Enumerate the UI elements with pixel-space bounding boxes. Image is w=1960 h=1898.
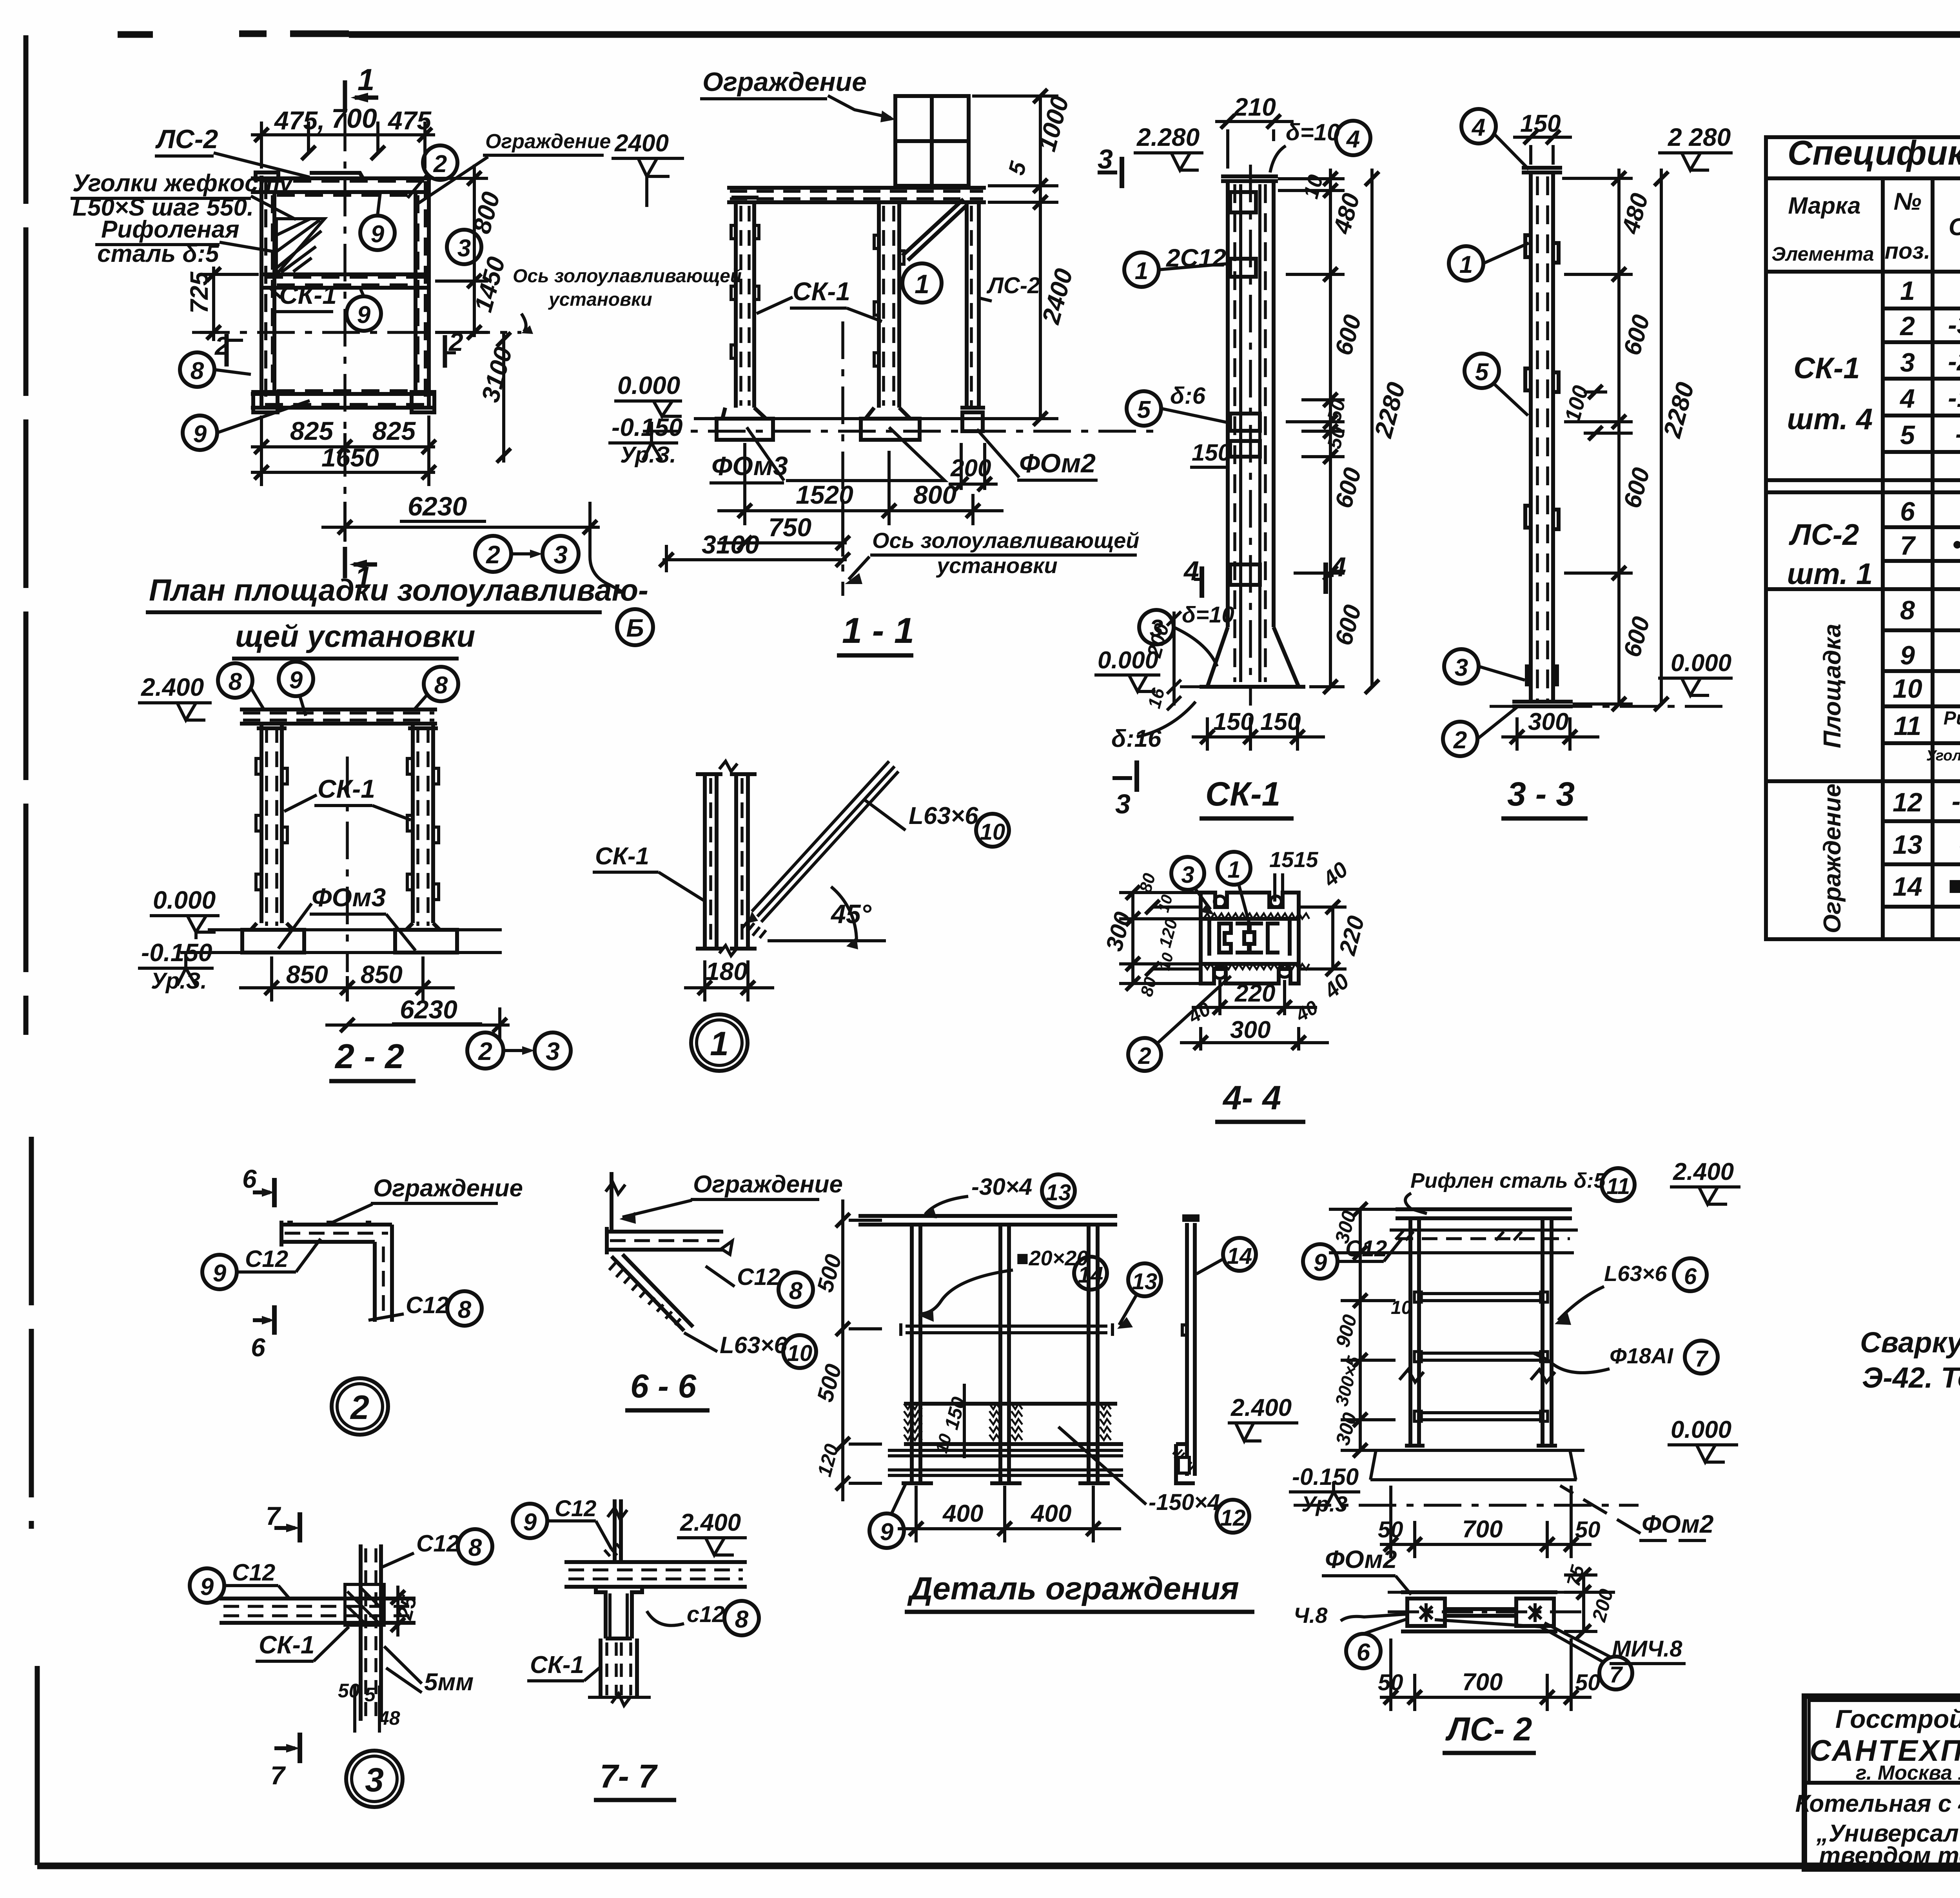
svg-text:475,: 475, <box>274 106 325 135</box>
svg-text:С12: С12 <box>232 1559 275 1586</box>
4-4 top plate with notches <box>1201 893 1299 919</box>
svg-text:13: 13 <box>1046 1180 1071 1205</box>
node 2 3-3 <box>1443 722 1477 756</box>
4-4 node 3 <box>1171 857 1204 890</box>
section 3 mark bottom <box>1134 760 1139 792</box>
svg-text:L63×6: L63×6 <box>720 1332 787 1358</box>
ground line <box>694 417 1035 420</box>
section 1 cut centerline <box>343 114 347 557</box>
svg-text:3: 3 <box>1181 862 1194 888</box>
detail3 horizontal beam <box>220 1599 416 1623</box>
svg-text:3 - 3: 3 - 3 <box>1507 775 1575 813</box>
fence mid rail <box>906 1326 1107 1333</box>
svg-text:3: 3 <box>554 541 568 569</box>
svg-text:шт. 1: шт. 1 <box>1787 557 1873 591</box>
svg-text:1: 1 <box>915 269 929 299</box>
svg-text:• Ф18АI: • Ф18АI <box>1952 530 1960 559</box>
ЛС-2 plan anchor symbols <box>1420 1606 1541 1619</box>
svg-text:3: 3 <box>457 235 471 262</box>
ЛС-2 stringers <box>1410 1218 1552 1446</box>
dim 725 left <box>200 267 259 341</box>
svg-text:13: 13 <box>1132 1269 1158 1294</box>
svg-text:поз.: поз. <box>1885 238 1931 264</box>
svg-text:6: 6 <box>251 1333 266 1362</box>
svg-text:825: 825 <box>290 416 334 445</box>
svg-text:-150×10: -150×10 <box>1948 383 1960 413</box>
svg-text:7- 7: 7- 7 <box>600 1758 658 1795</box>
2-2 center axis <box>346 757 349 972</box>
post side view body <box>1187 1223 1195 1476</box>
svg-text:1: 1 <box>1227 856 1240 883</box>
section marks 4-4 <box>1202 563 1326 598</box>
2-2 right column <box>395 724 457 953</box>
6-6 hatched angle below <box>612 1254 693 1331</box>
4-4 bolt holes <box>1214 966 1226 978</box>
svg-text:Э-42. Толщина сварных швов-: Э-42. Толщина сварных швов- 4мм. <box>1862 1361 1960 1394</box>
svg-text:2400: 2400 <box>614 130 669 157</box>
svg-text:1: 1 <box>1135 258 1148 285</box>
node 3 3-3 <box>1444 649 1479 684</box>
svg-text:Ф18АI: Ф18АI <box>1610 1343 1673 1368</box>
6-6 fence post top <box>610 1172 613 1231</box>
svg-text:Б: Б <box>626 614 644 642</box>
section 2 cut marks <box>227 334 456 368</box>
svg-text:4: 4 <box>1330 552 1346 582</box>
platform bottom beam <box>251 394 435 408</box>
svg-text:СК-1: СК-1 <box>279 280 337 309</box>
svg-text:5мм: 5мм <box>424 1669 474 1696</box>
detail1 45deg arc <box>768 939 886 942</box>
svg-text:7: 7 <box>266 1501 281 1530</box>
detail3 dim 25 <box>396 1586 399 1637</box>
svg-text:475: 475 <box>387 106 432 135</box>
svg-text:12: 12 <box>1893 788 1922 817</box>
4-4 dim left 300 <box>1119 885 1201 991</box>
svg-text:СК-1: СК-1 <box>318 774 375 803</box>
ЛС-2 foundation <box>1370 1450 1577 1480</box>
dim 3100 right lower <box>497 332 511 463</box>
СК-1 base dashdot ground <box>1180 685 1341 688</box>
svg-text:ЛС- 2: ЛС- 2 <box>1445 1711 1532 1747</box>
detail2 corner angle <box>281 1221 392 1322</box>
svg-text:1650: 1650 <box>321 443 379 472</box>
svg-text:2: 2 <box>448 327 463 356</box>
svg-text:9: 9 <box>213 1260 227 1287</box>
diagonal brace 1-1 <box>902 199 967 260</box>
svg-text:2 - 2: 2 - 2 <box>334 1037 404 1076</box>
svg-text:Ограждение: Ограждение <box>485 130 611 153</box>
fence plate end hatches <box>904 1404 1111 1440</box>
node 9 mid <box>347 296 381 331</box>
svg-text:700: 700 <box>331 103 377 134</box>
axis Б circle <box>617 609 653 645</box>
svg-text:9: 9 <box>289 667 303 694</box>
svg-text:2: 2 <box>433 151 447 178</box>
dims 50 50 small right <box>1301 393 1345 464</box>
platform middle beam <box>261 274 429 288</box>
svg-text:4: 4 <box>1346 126 1360 153</box>
svg-text:9: 9 <box>193 421 207 448</box>
node 5 δ=6 <box>1127 391 1161 426</box>
svg-text:ФОм2: ФОм2 <box>1019 448 1096 478</box>
3-3 flange tabs <box>1525 235 1559 684</box>
svg-text:1: 1 <box>358 62 374 97</box>
node 2 top right <box>423 145 457 180</box>
svg-text:850: 850 <box>361 960 403 989</box>
column СК-1 middle <box>861 202 920 440</box>
svg-text:5: 5 <box>1137 396 1151 423</box>
svg-text:2: 2 <box>1138 1043 1151 1069</box>
svg-text:-0.150: -0.150 <box>141 938 212 967</box>
svg-text:δ=10: δ=10 <box>1286 119 1340 145</box>
svg-text:L63×6: L63×6 <box>1604 1261 1667 1286</box>
detail3 node 9 С12 <box>190 1568 224 1603</box>
4-4 bottom dims 220 300 <box>1180 980 1329 1051</box>
svg-text:6230: 6230 <box>400 995 457 1024</box>
4-4 dim right 220 <box>1299 900 1347 976</box>
svg-text:8: 8 <box>458 1296 472 1323</box>
axis 2 to 3 bottom <box>475 536 511 572</box>
svg-text:СК-1: СК-1 <box>595 843 649 870</box>
detail2 section mark 6 top <box>272 1178 277 1207</box>
checkered steel hatch patch <box>276 219 325 274</box>
ЛС-2 node 9 С12 <box>1303 1244 1338 1279</box>
svg-text:Ось золоулавливающей: Ось золоулавливающей <box>872 528 1139 553</box>
svg-text:50: 50 <box>1378 1670 1403 1695</box>
svg-text:Рифоленая: Рифоленая <box>101 216 240 243</box>
svg-text:Ограждение: Ограждение <box>702 67 867 97</box>
2-2 axis 2 to 3 <box>467 1032 503 1069</box>
svg-text:7: 7 <box>1695 1346 1709 1372</box>
4-4 weld serrations <box>1203 913 1309 969</box>
svg-text:11: 11 <box>1606 1174 1630 1199</box>
svg-text:Госстрой СССР: Госстрой СССР <box>1835 1704 1960 1733</box>
fence panel on beam <box>895 96 969 186</box>
svg-text:400: 400 <box>942 1500 983 1527</box>
svg-text:6: 6 <box>1357 1639 1370 1666</box>
svg-text:150: 150 <box>1192 439 1231 466</box>
svg-text:5: 5 <box>1475 359 1489 386</box>
node 1 detail circle <box>902 263 942 303</box>
svg-text:11: 11 <box>1894 711 1922 741</box>
svg-text:ФОм3: ФОм3 <box>711 451 788 481</box>
svg-text:Элемента: Элемента <box>1771 243 1874 265</box>
dim 300 3-3 <box>1501 717 1599 751</box>
svg-text:150: 150 <box>1260 708 1301 735</box>
svg-text:-30×4: -30×4 <box>971 1174 1032 1200</box>
svg-text:Ограждение: Ограждение <box>1819 784 1846 933</box>
4-4 middle web channels <box>1201 919 1299 964</box>
svg-text:9: 9 <box>371 221 385 248</box>
svg-text:L63×6: L63×6 <box>909 802 978 829</box>
fence post feet <box>902 1481 1110 1485</box>
svg-text:δ:16: δ:16 <box>1111 725 1161 752</box>
svg-text:8: 8 <box>434 672 448 699</box>
ЛС-2 plan dim 75 200 <box>1564 1568 1615 1639</box>
dim chain right: 10 480 600 <box>1278 169 1345 694</box>
7-7 column below <box>596 1587 642 1639</box>
svg-text:Марка: Марка <box>1788 192 1860 219</box>
svg-text:1: 1 <box>1900 276 1915 306</box>
3-3 column body <box>1512 168 1573 706</box>
svg-text:300: 300 <box>1230 1016 1270 1043</box>
svg-text:СК-1: СК-1 <box>1205 775 1280 813</box>
svg-text:750: 750 <box>768 513 811 542</box>
dim 150 top 3-3 <box>1513 130 1572 165</box>
table header texts <box>1771 133 1960 265</box>
fence dim 150 10 inner <box>963 1384 966 1458</box>
platform right channel <box>416 178 429 408</box>
svg-text:3: 3 <box>1455 654 1468 681</box>
dim 210 top <box>1215 114 1294 169</box>
svg-text:■ 20×20: ■ 20×20 <box>1948 871 1960 900</box>
svg-text:Уголки жесткости: Уголки жесткости <box>1926 748 1960 764</box>
svg-text:14: 14 <box>1078 1262 1103 1288</box>
svg-text:725: 725 <box>185 271 213 314</box>
column lines <box>1881 178 1885 939</box>
svg-text:Деталь ограждения: Деталь ограждения <box>907 1571 1239 1606</box>
svg-text:0.000: 0.000 <box>617 371 680 399</box>
svg-text:9: 9 <box>200 1573 214 1600</box>
svg-text:2.400: 2.400 <box>141 673 204 701</box>
svg-text:δ:6: δ:6 <box>1170 383 1206 409</box>
svg-text:щей установки: щей установки <box>235 619 475 653</box>
svg-text:Сечение: Сечение <box>1949 214 1960 241</box>
svg-text:13: 13 <box>1893 830 1922 860</box>
СК-1 inner dashed chords <box>1235 184 1265 682</box>
svg-text:3100: 3100 <box>702 530 759 559</box>
svg-text:Уголки жефкосту: Уголки жефкосту <box>73 170 294 197</box>
dim 2280 outer right <box>1365 169 1379 694</box>
post node 14 <box>1223 1238 1256 1271</box>
svg-text:С12: С12 <box>555 1496 596 1521</box>
svg-text:45°: 45° <box>830 899 872 929</box>
beam 1-1 top <box>727 188 986 202</box>
detail1 big circle 1 <box>691 1014 748 1071</box>
dim 3100 <box>659 545 850 572</box>
ЛС-2 axis dashdot <box>1294 1504 1639 1507</box>
fence posts <box>912 1225 1098 1483</box>
svg-text:3: 3 <box>1098 144 1113 174</box>
svg-text:180: 180 <box>706 957 748 985</box>
svg-text:Рифлен.ст.: Рифлен.ст. <box>1944 708 1960 729</box>
svg-text:2: 2 <box>478 1037 492 1065</box>
svg-text:С12: С12 <box>245 1246 288 1272</box>
detail1 break marks <box>719 761 737 956</box>
platform hidden dashed edges <box>265 181 426 405</box>
ЛС-2 plan node 6 <box>1346 1634 1381 1668</box>
svg-text:№: № <box>1893 188 1921 215</box>
node 8 left <box>180 352 214 387</box>
platform left channel <box>261 176 274 408</box>
dim 150 150 bottom <box>1192 717 1325 751</box>
data row lines <box>1883 308 1960 452</box>
svg-text:- 150×4: - 150×4 <box>1952 786 1960 816</box>
7-7 fence post above <box>615 1499 621 1562</box>
plan horizontal axis <box>192 331 521 334</box>
svg-text:6 - 6: 6 - 6 <box>630 1368 697 1404</box>
svg-text:1515: 1515 <box>1269 847 1318 872</box>
column СК-1 left <box>717 198 773 440</box>
svg-text:2: 2 <box>350 1389 369 1426</box>
svg-text:Площадка: Площадка <box>1819 624 1846 748</box>
dim 200 16 left <box>1167 611 1181 710</box>
ЛС-2 plan body <box>1401 1592 1557 1631</box>
svg-text:ЛС-2: ЛС-2 <box>155 124 218 154</box>
svg-text:210: 210 <box>1234 93 1276 121</box>
svg-text:Рифлен сталь δ:5: Рифлен сталь δ:5 <box>1410 1169 1606 1192</box>
svg-text:2.280: 2.280 <box>1136 123 1200 151</box>
node 4 top 3-3 <box>1461 109 1496 143</box>
svg-text:СК-1: СК-1 <box>259 1631 314 1659</box>
svg-text:установки: установки <box>936 553 1058 578</box>
svg-text:7: 7 <box>1610 1662 1623 1688</box>
svg-text:48: 48 <box>378 1707 400 1729</box>
svg-text:Ограждение: Ограждение <box>693 1171 843 1198</box>
4-4 bottom plate with notches <box>1201 964 1299 983</box>
dim 475 700 475 <box>251 122 435 169</box>
page bottom border <box>37 1863 1960 1869</box>
svg-text:-150×4: -150×4 <box>1149 1490 1220 1515</box>
svg-text:4: 4 <box>1471 114 1485 141</box>
svg-text:8: 8 <box>735 1606 749 1633</box>
svg-text:200: 200 <box>950 455 991 482</box>
svg-text:С12: С12 <box>406 1292 449 1318</box>
ЛС-2 plan axis <box>1388 1591 1584 1594</box>
svg-text:6: 6 <box>242 1164 257 1193</box>
svg-text:2: 2 <box>1453 727 1467 754</box>
svg-text:-200×10: -200×10 <box>1948 347 1960 376</box>
svg-text:7: 7 <box>270 1761 286 1790</box>
svg-text:3: 3 <box>1900 348 1915 377</box>
dim 1650 <box>251 461 436 486</box>
2-2 dim 850 850 <box>239 956 455 1002</box>
svg-text:-300×16: -300×16 <box>1948 310 1960 340</box>
fence node 9 bottom left <box>869 1513 904 1548</box>
svg-text:10: 10 <box>1893 674 1922 704</box>
svg-text:Ограждение: Ограждение <box>373 1175 523 1202</box>
svg-text:1: 1 <box>1459 251 1473 278</box>
ЛС-2 stringer hatch top <box>1396 1231 1522 1240</box>
svg-text:твердом топливе: твердом топливе <box>1819 1842 1960 1869</box>
svg-text:50: 50 <box>1575 1517 1601 1542</box>
svg-text:С12: С12 <box>737 1264 780 1290</box>
detail3 vertical post <box>361 1544 381 1721</box>
svg-text:400: 400 <box>1030 1500 1071 1527</box>
table header bottom <box>1766 270 1960 274</box>
detail1 weld hatch at joint <box>742 919 766 938</box>
svg-text:2: 2 <box>1899 311 1915 341</box>
dim 200 <box>949 443 998 491</box>
svg-text:50: 50 <box>1575 1670 1601 1695</box>
svg-text:9: 9 <box>1900 641 1915 670</box>
svg-text:1: 1 <box>710 1025 729 1063</box>
svg-text:5: 5 <box>365 1684 376 1706</box>
svg-text:10: 10 <box>1391 1297 1412 1318</box>
svg-text:План площадки золоулавливаю-: План площадки золоулавливаю- <box>149 573 648 607</box>
svg-text:150: 150 <box>1520 110 1561 137</box>
fence dim 400 400 <box>898 1486 1121 1542</box>
left column dividers <box>1804 1781 1960 1785</box>
svg-text:Сварку элементов производи: Сварку элементов производить электродами <box>1860 1326 1960 1359</box>
svg-text:СК-1: СК-1 <box>793 277 850 306</box>
post side small tab <box>1182 1325 1187 1335</box>
dim 825 825 <box>251 416 436 461</box>
svg-text:Котельная с 4котлами: Котельная с 4котлами <box>1795 1790 1960 1817</box>
svg-text:4- 4: 4- 4 <box>1222 1079 1281 1117</box>
ЛС-2 connection plate <box>310 173 363 178</box>
svg-text:2.400: 2.400 <box>1673 1158 1734 1185</box>
detail2 section mark 6 bottom <box>272 1305 277 1335</box>
svg-text:2: 2 <box>214 331 229 360</box>
svg-text:ЛС-2: ЛС-2 <box>1789 518 1859 552</box>
svg-text:4: 4 <box>1183 555 1199 586</box>
column stiffener tabs left <box>731 225 759 358</box>
svg-text:9: 9 <box>1314 1249 1327 1276</box>
node 1 2С12 <box>1124 252 1159 287</box>
detail1 column chords <box>696 774 757 949</box>
post ЛС-2 right <box>960 202 985 431</box>
2-2 top beam <box>240 709 437 724</box>
detail3 gusset <box>345 1584 384 1625</box>
СК-1 stiffener plates <box>1230 192 1260 585</box>
svg-text:8: 8 <box>191 357 204 385</box>
svg-text:50: 50 <box>1378 1517 1403 1542</box>
svg-text:С12: С12 <box>416 1530 459 1557</box>
section mark 1 top <box>345 80 378 112</box>
svg-text:6230: 6230 <box>408 492 467 521</box>
2-2 node circles 8 9 8 <box>218 663 252 698</box>
svg-text:Ур.З.: Ур.З. <box>620 442 676 468</box>
7-7 platform beam <box>564 1562 747 1587</box>
svg-text:8: 8 <box>468 1534 482 1561</box>
node 9 top <box>360 216 395 250</box>
svg-text:6: 6 <box>1900 497 1915 526</box>
svg-text:800: 800 <box>913 480 956 509</box>
svg-text:10: 10 <box>980 819 1005 845</box>
fence node 13 right <box>1128 1263 1161 1296</box>
svg-text:12: 12 <box>1220 1505 1246 1531</box>
axis line установки <box>841 321 844 596</box>
page left border dashed <box>26 35 31 1529</box>
dim 2280 3-3 <box>1654 169 1668 711</box>
7-7 post weld hatch <box>604 1544 622 1556</box>
svg-text:6: 6 <box>1684 1264 1697 1289</box>
svg-text:с12: с12 <box>687 1602 725 1627</box>
svg-text:8: 8 <box>229 668 242 695</box>
svg-text:шт. 4: шт. 4 <box>1787 403 1873 436</box>
ЛС-2 top platform <box>1396 1209 1572 1218</box>
ЛС-2 plan node 7 <box>1599 1657 1632 1689</box>
svg-text:СК-1: СК-1 <box>530 1651 584 1678</box>
svg-text:-0.150: -0.150 <box>612 413 682 441</box>
svg-text:0.000: 0.000 <box>1671 1416 1731 1443</box>
2-2 ground line <box>208 928 502 931</box>
dim 750 <box>717 506 850 557</box>
svg-text:4: 4 <box>1899 384 1915 414</box>
ЛС-2 dim left 300 900 300x5 300 <box>1329 1202 1396 1457</box>
svg-text:Ось золоулавливающей: Ось золоулавливающей <box>513 266 742 287</box>
svg-text:14: 14 <box>1227 1243 1252 1269</box>
4-4 node 1 <box>1218 852 1250 885</box>
dims 800 1450 right <box>435 165 488 339</box>
3-3 dashed chord <box>1537 176 1548 700</box>
detail3 big circle 3 <box>346 1751 403 1807</box>
svg-text:0.000: 0.000 <box>1671 650 1731 677</box>
title block frame <box>1804 1696 1960 1869</box>
node 9 bottom <box>183 416 217 450</box>
svg-text:50: 50 <box>338 1680 360 1702</box>
